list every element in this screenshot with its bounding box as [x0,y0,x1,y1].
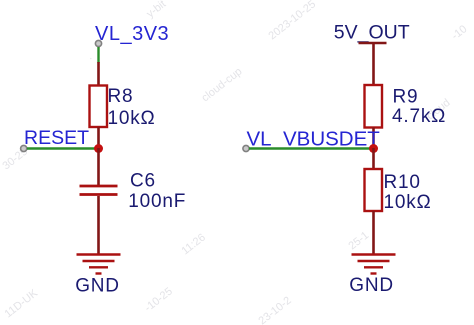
wire (junction to C6) [97,148,100,185]
node junction B (VL_VBUSDET / R9 / R10) [369,144,378,153]
wire (VL_3V3 to R8) [97,62,100,86]
pin (RESET terminal) [21,145,27,151]
svg-text:10kΩ: 10kΩ [108,108,156,129]
svg-text:RESET: RESET [24,127,89,149]
svg-text:5V_OUT: 5V_OUT [334,21,410,43]
svg-text:25-1: 25-1 [346,229,371,252]
resistor R10 [365,169,383,211]
wire (RESET green) [27,147,96,149]
resistor R9 [365,85,383,128]
ground (right GND symbol) [352,255,396,274]
svg-text:-10: -10 [449,23,469,42]
svg-text:cloud-cup: cloud-cup [199,66,244,105]
svg-text:R9: R9 [393,87,419,108]
svg-text:C6: C6 [130,171,156,192]
ground (left GND symbol) [77,255,121,274]
svg-text:23-10-2: 23-10-2 [256,295,293,325]
svg-text:-10-25: -10-25 [142,285,174,314]
node junction A (RESET / R8 / C6) [94,144,103,153]
svg-text:.: . [84,51,94,62]
svg-text:R10: R10 [384,172,421,193]
pin (VL_VBUSDET terminal) [243,145,249,151]
svg-text:11D-UK: 11D-UK [2,287,40,320]
power port 5V_OUT bar [359,42,387,45]
wire (R10 to GND) [372,211,375,254]
wire (R9 to junction) [372,128,375,150]
svg-text:2023-10-25: 2023-10-25 [266,0,318,42]
svg-text:GND: GND [349,275,394,296]
wire (5V_OUT to R9) [372,43,375,86]
svg-text:4.7kΩ: 4.7kΩ [392,106,446,127]
wire (R8 to junction) [97,127,100,149]
capacitor C6 [80,186,118,195]
wire (VL_VBUSDET green) [249,147,371,149]
pin (VL_3V3 terminal) [95,40,101,46]
svg-text:11:26: 11:26 [179,231,207,257]
resistor R8 [90,86,108,128]
svg-text:VL_VBUSDET: VL_VBUSDET [247,128,381,151]
wire (green pin leg from VL_3V3) [97,47,99,63]
svg-text:100nF: 100nF [128,191,186,212]
svg-text:y-bit: y-bit [144,0,168,20]
wire (C6 to GND) [97,196,100,254]
svg-text:10kΩ: 10kΩ [384,192,432,213]
svg-text:GND: GND [75,276,120,297]
svg-text:VL_3V3: VL_3V3 [95,23,169,45]
svg-text:R8: R8 [108,86,134,107]
wire (junction to R10) [372,148,375,170]
